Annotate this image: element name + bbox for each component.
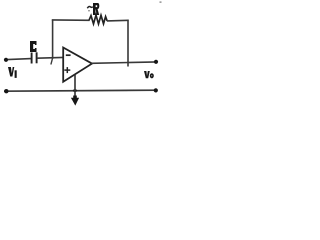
wire input left segment: [4, 59, 31, 60]
label VI: [8, 67, 14, 77]
op-amp U1 triangle: [63, 48, 92, 82]
wire input right segment: [37, 56, 63, 59]
op-amp plus input marker: [64, 67, 70, 73]
node inverting input junction tail: [51, 58, 53, 65]
label C: [30, 41, 37, 52]
label R: [93, 3, 99, 15]
wire output: [92, 62, 158, 63]
node input terminal dot: [4, 58, 8, 62]
wire bottom rail: [4, 90, 157, 91]
wire feedback top right segment: [107, 19, 129, 22]
node ground-rail junction blob: [73, 89, 77, 92]
speck below tilde: [88, 10, 90, 11]
wire feedback vertical left: [52, 20, 54, 59]
tilde mark before R: [87, 6, 93, 8]
ground arrow: [71, 98, 79, 106]
speck top right: [160, 2, 162, 3]
op-amp minus input marker: [66, 54, 71, 56]
resistor R zigzag: [89, 15, 107, 24]
label Vo: [144, 71, 150, 78]
wire ground drop from op-amp: [74, 75, 76, 99]
capacitor C plates: [32, 52, 37, 63]
node bottom-left terminal dot: [4, 89, 8, 93]
node output terminal dot: [154, 60, 158, 64]
wire feedback top left segment: [52, 19, 90, 21]
node bottom-right terminal dot: [154, 88, 158, 92]
wire feedback vertical right: [127, 20, 129, 67]
